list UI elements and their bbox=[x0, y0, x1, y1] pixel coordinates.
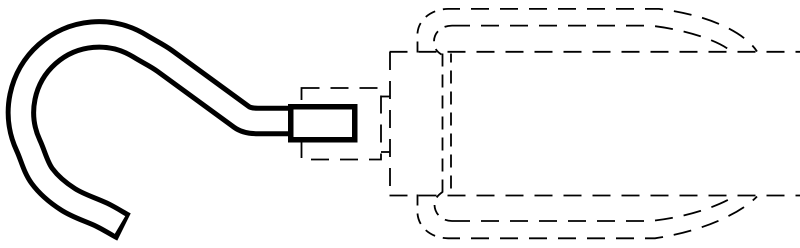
tick lower (link between ferrule box and strap box) bbox=[381, 151, 390, 153]
strap slot right edge (dashed vertical) bbox=[450, 54, 452, 194]
loop inner vertical edge bbox=[442, 54, 444, 194]
loop inner outline, bottom run (phantom) bbox=[452, 197, 734, 222]
loop inner outline, top-left curl (phantom) bbox=[434, 26, 452, 55]
ferrule (solid crimp sleeve at hook shank end) bbox=[291, 107, 355, 140]
tick upper (link between ferrule box and strap box) bbox=[381, 96, 390, 98]
dashed box around ferrule (phantom outline of molded socket) bbox=[302, 88, 382, 160]
strap bottom edge (dashed, runs to right margin) bbox=[390, 195, 800, 197]
strap slot left edge (dashed vertical) bbox=[389, 52, 391, 195]
loop inner outline, bottom-left curl (phantom) bbox=[435, 192, 453, 221]
loop outer outline, top run (phantom) bbox=[448, 9, 757, 52]
hook (S-hook body, solid outline drawn as black tube with white core) bbox=[21, 34, 296, 227]
loop outer outline, top-left curl (phantom) bbox=[418, 9, 449, 53]
loop inner outline, top run (phantom) bbox=[452, 26, 731, 51]
strap top edge (dashed, runs to right margin) bbox=[390, 51, 800, 53]
loop outer outline, bottom run (phantom) bbox=[448, 197, 757, 239]
loop outer outline, bottom-left curl (phantom) bbox=[418, 195, 449, 239]
